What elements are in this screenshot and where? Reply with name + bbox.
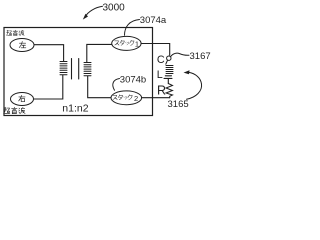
svg-text:3167: 3167	[190, 51, 211, 62]
svg-text:n1:n2: n1:n2	[62, 103, 88, 115]
svg-text:1: 1	[135, 40, 139, 49]
svg-text:L: L	[157, 69, 163, 81]
svg-text:3000: 3000	[103, 2, 126, 13]
svg-text:3074a: 3074a	[140, 15, 167, 26]
svg-text:C: C	[157, 54, 165, 66]
svg-text:3165: 3165	[168, 99, 189, 110]
svg-text:R: R	[157, 83, 166, 97]
svg-text:3074b: 3074b	[120, 74, 146, 85]
svg-text:2: 2	[134, 94, 138, 103]
